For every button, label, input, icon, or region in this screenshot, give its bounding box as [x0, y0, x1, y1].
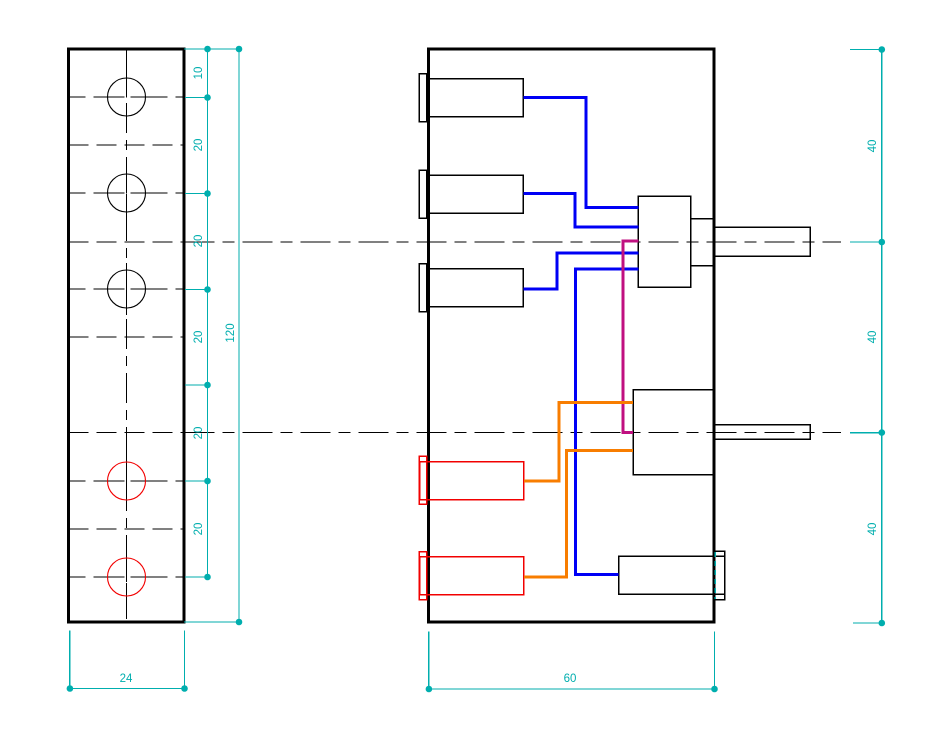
svg-text:10: 10 [193, 67, 205, 80]
svg-text:20: 20 [193, 331, 205, 344]
svg-text:20: 20 [193, 427, 205, 440]
svg-text:24: 24 [120, 673, 133, 685]
svg-text:60: 60 [564, 673, 577, 685]
svg-text:40: 40 [867, 140, 879, 153]
svg-text:20: 20 [193, 523, 205, 536]
svg-text:120: 120 [225, 323, 237, 342]
svg-text:40: 40 [867, 331, 879, 344]
svg-text:40: 40 [867, 523, 879, 536]
svg-text:20: 20 [193, 139, 205, 152]
svg-text:20: 20 [193, 235, 205, 248]
